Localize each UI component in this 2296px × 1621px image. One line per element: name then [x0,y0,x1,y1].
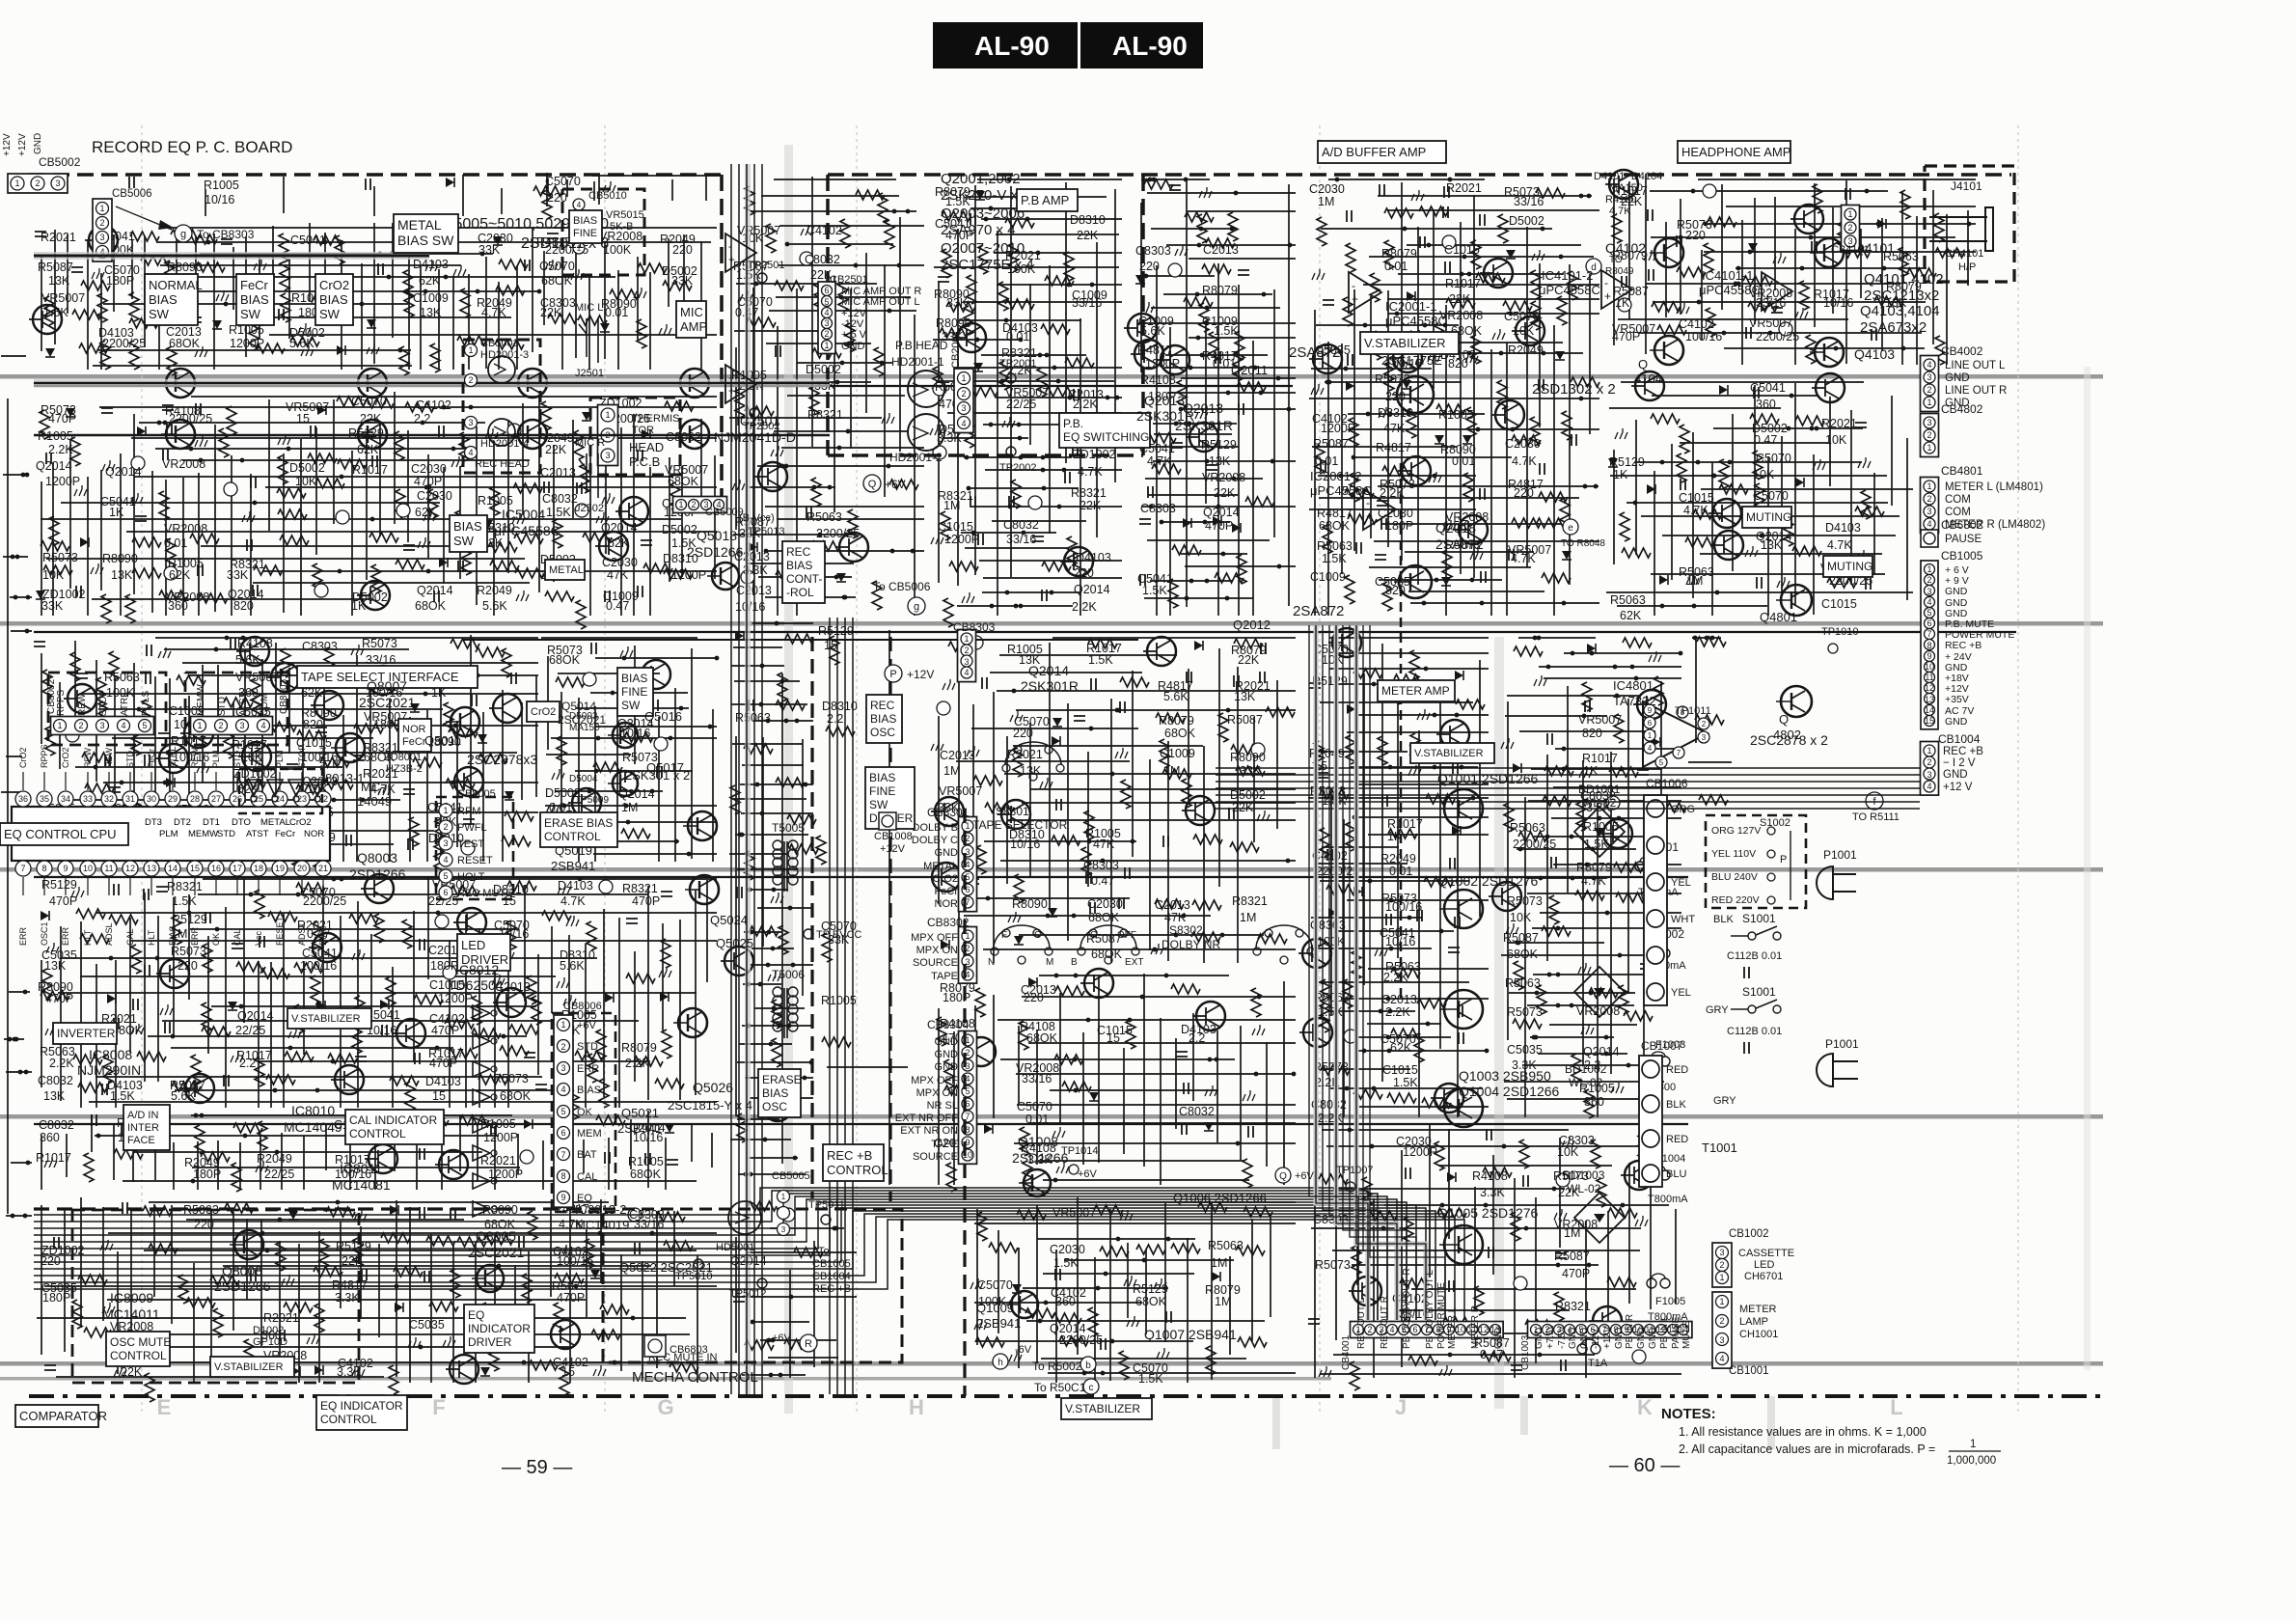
svg-text:C1009: C1009 [1160,747,1195,760]
svg-text:470P: 470P [414,475,442,488]
svg-text:2SD1266: 2SD1266 [214,1278,271,1294]
svg-text:REC HEAD: REC HEAD [475,458,530,470]
q5018 label [687,528,744,560]
svg-text:TP1010: TP1010 [1821,626,1859,638]
svg-text:820: 820 [1582,727,1602,740]
svg-text:R5063: R5063 [1208,1239,1244,1252]
svg-text:R5073: R5073 [171,945,206,958]
circuit filler 32 [1688,636,1732,805]
svg-text:2SD1302 x 2: 2SD1302 x 2 [1532,381,1616,398]
svg-text:CH4101: CH4101 [1945,248,1983,260]
svg-text:R2021: R2021 [263,1311,299,1325]
svg-text:180P: 180P [193,1168,221,1181]
svg-text:3: 3 [99,721,104,730]
selector switch arcs [991,742,1315,964]
svg-text:Q8008: Q8008 [222,1263,262,1278]
heavy bus 663 [463,639,1138,641]
svg-text:AMP: AMP [680,319,707,334]
svg-text:S1001: S1001 [1742,912,1776,925]
svg-text:ERASE BIAS: ERASE BIAS [544,816,613,830]
svg-text:3: 3 [961,403,966,413]
svg-text:33/16: 33/16 [1022,1072,1052,1085]
svg-text:4: 4 [1389,1325,1394,1334]
svg-text:33/16: 33/16 [1514,195,1544,208]
svg-text:13: 13 [147,864,156,873]
svg-text:1.5K: 1.5K [1142,584,1167,597]
svg-text:Q: Q [1638,357,1648,371]
svg-text:33/16: 33/16 [366,653,396,667]
svg-text:470P: 470P [557,1291,585,1305]
svg-text:μPC4558C: μPC4558C [1699,283,1761,297]
svg-text:21: 21 [318,864,328,873]
svg-text:1: 1 [964,634,969,644]
gry labels [1706,1004,1736,1107]
svg-text:C5070: C5070 [1504,310,1540,323]
svg-text:REC +B: REC +B [827,1148,872,1163]
svg-text:IC8013-2: IC8013-2 [575,1202,626,1217]
svg-text:+12 V: +12 V [1943,782,1973,793]
circuit filler 34 [1,356,32,1218]
svg-text:LED: LED [461,938,485,952]
svg-text:1M: 1M [1686,574,1703,588]
svg-text:WL-02: WL-02 [1582,796,1617,810]
label box BIAS [617,668,653,716]
svg-text:EQ SWITCHING: EQ SWITCHING [1063,430,1149,444]
svg-text:N: N [988,957,995,968]
svg-text:20: 20 [297,864,307,873]
svg-text:-ROL: -ROL [786,586,814,599]
heavy bus 265 [34,252,429,260]
heavy bus along band 1162 [34,1123,1688,1125]
svg-text:R5063: R5063 [1510,821,1545,835]
svg-text:C2013: C2013 [540,466,576,480]
svg-text:22/25: 22/25 [264,1168,294,1181]
svg-text:R5073: R5073 [1315,1258,1351,1272]
svg-text:C5035: C5035 [409,1318,445,1332]
svg-text:C2013: C2013 [1381,993,1417,1006]
svg-text:C5070: C5070 [977,1278,1013,1292]
q2011 q2012 labels [1231,363,1271,632]
transistor Q5024 [685,875,719,904]
svg-text:SOURCE: SOURCE [913,1151,958,1163]
svg-text:— 60 —: — 60 — [1609,1455,1680,1476]
transistor Q5011 [446,707,479,736]
svg-text:100/16: 100/16 [1385,900,1422,914]
svg-text:INTER: INTER [127,1122,159,1134]
svg-text:2: 2 [35,179,40,188]
svg-text:(B-Vcc): (B-Vcc) [739,512,775,524]
svg-text:7: 7 [1677,749,1681,757]
svg-text:R5073: R5073 [362,637,397,650]
svg-text:4104: 4104 [1634,371,1662,386]
svg-text:R2049: R2049 [1380,852,1416,865]
q1008 label [1012,1134,1069,1166]
svg-text:2SA872: 2SA872 [1293,603,1344,619]
svg-text:220: 220 [178,959,198,973]
svg-text:3: 3 [1927,587,1931,596]
s8302 arc labels [988,930,1143,968]
svg-text:C5070: C5070 [1753,489,1789,503]
cb5010 label [588,190,644,233]
svg-text:4.7K: 4.7K [1683,504,1708,517]
svg-text:2200/25: 2200/25 [303,894,346,908]
q8008 label [214,1263,271,1294]
svg-text:IC8010: IC8010 [291,1103,335,1118]
svg-text:22K: 22K [1077,229,1099,242]
svg-text:PAUSE: PAUSE [1671,1317,1681,1349]
svg-text:To R50C1: To R50C1 [1034,1381,1086,1394]
q8003 label [349,850,406,882]
svg-text:OSC1: OSC1 [40,921,49,946]
svg-text:C2030: C2030 [1087,897,1123,911]
svg-text:R8079: R8079 [1576,861,1612,874]
svg-text:CB8003: CB8003 [279,678,289,714]
svg-text:Q1008: Q1008 [1018,1134,1058,1149]
svg-text:13K: 13K [48,274,70,288]
circled g to CB5006 [873,580,931,615]
svg-text:2SB941: 2SB941 [617,1121,662,1136]
svg-text:2SA872: 2SA872 [1289,344,1340,361]
label box V.STABILIZER [210,1357,294,1377]
svg-text:R5073: R5073 [42,551,78,564]
svg-text:TP1014: TP1014 [1061,1145,1099,1157]
meter amp vertical bundle [0,0,1,1]
fuse F1001 [1635,857,1658,871]
svg-text:0.47: 0.47 [1480,1348,1503,1361]
svg-text:GND: GND [1568,1328,1578,1349]
svg-text:HLT: HLT [83,929,93,946]
q2013 label [1136,393,1194,424]
svg-text:E: E [157,1395,172,1419]
svg-text:OK: OK [577,1107,593,1118]
svg-text:S8302: S8302 [1169,923,1203,937]
transistor Q5026a [673,1008,707,1037]
notes fraction [1947,1439,2001,1467]
svg-text:D5004: D5004 [569,774,598,784]
svg-text:68OK: 68OK [500,1089,532,1103]
svg-text:R2021: R2021 [41,231,76,244]
svg-text:10K: 10K [42,568,65,582]
headphone jacks [1929,207,1993,273]
svg-text:R2021: R2021 [1446,181,1482,195]
record eq board outline right [720,175,724,502]
svg-text:180P: 180P [430,959,458,973]
cb5009 connector [673,497,727,513]
svg-text:2.2: 2.2 [1189,1031,1205,1045]
svg-text:T800mA: T800mA [1648,1194,1688,1205]
svg-text:YEL: YEL [1671,987,1691,999]
cb4002 pin strip [1921,356,1939,412]
svg-text:GND: GND [1945,716,1968,728]
f1004 label [1648,1153,1688,1205]
label box CAL INDICATOR [345,1110,444,1144]
svg-text:COMPARATOR: COMPARATOR [19,1409,107,1423]
svg-text:1200P: 1200P [45,475,80,488]
svg-text:1: 1 [605,410,610,420]
svg-text:MEM: MEM [577,1128,602,1140]
svg-text:REW: REW [190,747,200,768]
svg-text:+12V: +12V [1602,1326,1613,1349]
svg-text:RED 220V: RED 220V [1711,894,1760,906]
label box P.B AMP [1017,189,1078,211]
svg-text:HD5001: HD5001 [716,1242,754,1253]
svg-text:CONT-: CONT- [786,572,822,586]
ic2501 label [714,413,796,445]
circuit filler 26 [1309,178,1599,616]
svg-text:NOTES:: NOTES: [1661,1406,1716,1422]
svg-text:68OK: 68OK [1319,519,1351,533]
svg-text:68OK: 68OK [668,475,699,488]
svg-text:Q5024: Q5024 [710,913,748,927]
svg-text:GND: GND [935,1049,959,1060]
svg-text:4: 4 [824,308,829,317]
label box METER AMP [1378,680,1455,701]
svg-text:R2049: R2049 [477,584,512,597]
cb8002 pins [51,717,154,735]
svg-text:L: L [1890,1395,1902,1419]
svg-text:C8303: C8303 [1140,502,1176,515]
svg-text:Q: Q [1779,712,1789,727]
svg-text:360: 360 [40,1131,60,1144]
svg-text:820: 820 [1448,357,1468,371]
tape selector dashed [1400,463,1403,1003]
svg-text:+6V: +6V [772,1333,792,1344]
rec+b board right dashed [888,637,891,1201]
svg-text:μPC4558C: μPC4558C [494,523,560,538]
pb head area bottom dashed [828,453,1143,457]
cb2001 pin strip [954,369,973,433]
svg-text:TD62504: TD62504 [448,977,504,993]
svg-text:ADSL: ADSL [104,922,114,946]
svg-text:S1001: S1001 [1742,985,1776,999]
circuit filler 15.5 [36,1111,712,1192]
svg-text:2: 2 [1927,430,1931,440]
svg-text:15: 15 [1107,1031,1120,1045]
svg-text:BIAS: BIAS [621,672,647,685]
f1003 label [1652,1039,1685,1093]
ic5004 label [494,507,560,538]
svg-text:NOR: NOR [304,829,324,839]
led buffer triangles [473,1005,497,1217]
svg-text:1200P: 1200P [488,1168,523,1181]
svg-text:STOP: STOP [98,690,109,716]
svg-text:C5041: C5041 [1750,381,1786,395]
svg-text:22/25: 22/25 [1006,398,1036,411]
svg-text:CB6803: CB6803 [670,1344,708,1356]
svg-text:1K: 1K [109,506,124,519]
svg-text:Q2013: Q2013 [1144,393,1185,408]
svg-text:68OK: 68OK [1135,1295,1167,1308]
svg-text:Q1006 2SD1266: Q1006 2SD1266 [1173,1191,1267,1205]
svg-text:13K: 13K [1234,690,1256,703]
cb1003 pins [1528,1322,1692,1338]
svg-text:10: 10 [83,864,93,873]
svg-text:+ 6 V: + 6 V [841,329,867,341]
svg-text:33K: 33K [1240,764,1262,778]
q500x heavy bus 1 [34,379,830,387]
circuit filler 27 [1605,170,1976,365]
svg-text:R5063: R5063 [1505,976,1541,990]
svg-text:Q1005 2SD1276: Q1005 2SD1276 [1437,1205,1539,1221]
svg-text:33/16: 33/16 [1006,533,1036,546]
svg-text:PULS: PULS [141,691,151,716]
svg-text:YEL 110V: YEL 110V [1711,848,1756,860]
d4101 partlist [1594,171,1662,217]
svg-text:FeCr: FeCr [402,736,426,748]
label box HEADPHONE AMP [1678,141,1790,163]
svg-text:22K: 22K [1238,653,1260,667]
svg-text:CONTROL: CONTROL [320,1413,377,1426]
transistor Q1008 [1019,1169,1051,1196]
plug P1001b [1817,1037,1859,1086]
svg-text:1: 1 [1719,1273,1724,1282]
fuse F1004 [1647,1166,1670,1180]
svg-text:BD1002: BD1002 [1565,1062,1607,1076]
gray shade vertical bundle [745,164,751,1394]
svg-text:CH6701: CH6701 [1744,1271,1783,1282]
eq control cpu chip [12,744,331,946]
svg-text:1.5K: 1.5K [1214,324,1239,338]
svg-text:BIAS: BIAS [149,292,178,307]
svg-text:D4103: D4103 [1076,551,1111,564]
label box CrO2 [315,274,353,325]
svg-text:+6V: +6V [885,478,906,491]
bridge rectifier BD1002 [1574,967,1625,1017]
svg-text:33K: 33K [946,296,969,310]
svg-text:C2013: C2013 [1203,243,1239,257]
label box REC +B [823,1144,888,1181]
q5005 partlist [442,216,609,252]
label box BIAS [450,515,487,552]
svg-text:P1001: P1001 [1823,848,1857,862]
transistor Q5023 [683,811,717,840]
svg-text:R5073: R5073 [1507,1005,1543,1019]
svg-text:1: 1 [1719,1297,1724,1306]
q5026 label [668,1080,752,1113]
svg-text:2: 2 [1367,1325,1372,1334]
svg-text:R5063: R5063 [1317,539,1353,553]
svg-text:Q1002 2SD1276: Q1002 2SD1276 [1437,873,1539,889]
q5019 label [551,843,595,873]
svg-text:1: 1 [1927,746,1931,756]
svg-text:CB4002: CB4002 [1941,344,1983,358]
svg-text:RECORD EQ P. C. BOARD: RECORD EQ P. C. BOARD [92,138,292,156]
svg-text:1M: 1M [943,499,960,512]
svg-text:R8090: R8090 [102,552,138,565]
q1009 label [976,1301,1021,1331]
svg-text:0.47: 0.47 [606,599,629,613]
svg-text:A/D BUFFER AMP: A/D BUFFER AMP [1322,145,1426,159]
svg-text:180P: 180P [943,991,970,1004]
svg-text:DOLBY C: DOLBY C [912,835,958,846]
svg-text:220: 220 [1024,991,1044,1004]
svg-text:Q1001 2SD1266: Q1001 2SD1266 [1437,771,1539,786]
svg-text:GND: GND [935,1036,959,1048]
svg-text:2SC2021: 2SC2021 [558,713,606,727]
svg-text:CB1005: CB1005 [812,1258,851,1270]
svg-text:RESET: RESET [457,855,493,866]
transistor row Q5006-Q5030 [161,420,709,449]
svg-text:2SA872: 2SA872 [1435,536,1484,552]
svg-text:MC14081: MC14081 [332,1177,391,1193]
svg-text:CrO2: CrO2 [933,873,958,885]
to r5002 b [1032,1357,1096,1373]
svg-text:2: 2 [961,389,966,398]
svg-text:100/16: 100/16 [1685,330,1722,343]
svg-text:Q5014: Q5014 [561,700,596,713]
svg-text:V.STABILIZER: V.STABILIZER [1065,1402,1140,1415]
svg-text:J: J [1395,1395,1407,1419]
bridge rectifier BD1003 [1574,1193,1625,1243]
svg-text:PWFL: PWFL [457,822,487,834]
cb5003 label [475,338,530,470]
label box OSC MUTE [106,1332,171,1366]
label box NOR [398,719,431,752]
cb1001 strip [1712,1292,1732,1368]
svg-text:C5070: C5070 [1017,1100,1052,1113]
svg-text:+6V: +6V [1295,1170,1315,1182]
cb1002 labels [1729,1228,1794,1282]
zd8001 label [384,752,423,775]
svg-text:IC4801: IC4801 [1613,678,1654,693]
svg-text:470P: 470P [48,412,76,426]
svg-text:RESET: RESET [275,916,285,946]
svg-text:14049: 14049 [357,794,392,809]
svg-text:2: 2 [468,375,473,385]
svg-text:TAPE: TAPE [931,1139,958,1150]
svg-text:CASSETTE: CASSETTE [1738,1248,1794,1259]
svg-text:c: c [1089,1383,1094,1393]
svg-text:10/16: 10/16 [1010,838,1040,851]
svg-text:TP1011: TP1011 [1675,705,1711,717]
svg-text:3: 3 [1927,372,1931,382]
svg-text:22K: 22K [1214,486,1236,500]
tp2502 circle [743,408,780,432]
ic2001 labels [1310,299,1484,552]
svg-text:STOP: STOP [297,745,307,768]
svg-text:RPPS: RPPS [40,744,49,768]
heavy bus left 398 [34,385,1293,387]
svg-text:14: 14 [168,864,178,873]
svg-text:CrO2: CrO2 [289,817,312,828]
svg-text:R2021: R2021 [480,1154,516,1168]
svg-text:CrO2: CrO2 [18,747,28,768]
thermistor text [629,413,684,469]
circled R plus6v [772,1333,817,1352]
bd1002 label [1565,1062,1607,1089]
svg-text:C1015: C1015 [1679,491,1714,505]
svg-text:GND: GND [1614,1328,1625,1349]
svg-text:BLU 240V: BLU 240V [1711,871,1758,883]
svg-text:6: 6 [1927,618,1931,628]
svg-text:M: M [1046,957,1053,968]
cb8005 dashed box [436,797,513,899]
left vertical bundle [731,164,762,1394]
svg-text:29: 29 [168,794,178,804]
svg-text:GND: GND [1579,1328,1590,1349]
svg-text:2.2: 2.2 [239,1057,256,1070]
svg-text:R4817: R4817 [332,1278,368,1292]
svg-text:220: 220 [1514,486,1534,500]
svg-text:BIAS SW: BIAS SW [397,233,454,248]
svg-text:VR5007: VR5007 [939,784,982,798]
vstab transistor Q1001 [1439,789,1483,828]
svg-text:5.6K: 5.6K [1163,690,1189,703]
circuit filler 18 [729,177,924,616]
svg-text:+35V: +35V [1945,694,1969,705]
staircase bundle to bottom connectors [34,1188,1464,1320]
svg-text:FeCr: FeCr [935,886,959,897]
